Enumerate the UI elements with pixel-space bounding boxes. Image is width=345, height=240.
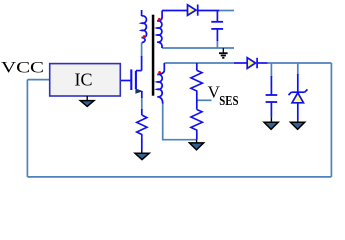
svg-text:SES: SES [219,93,238,108]
svg-text:VCC: VCC [1,59,44,76]
svg-text:IC: IC [75,70,93,90]
